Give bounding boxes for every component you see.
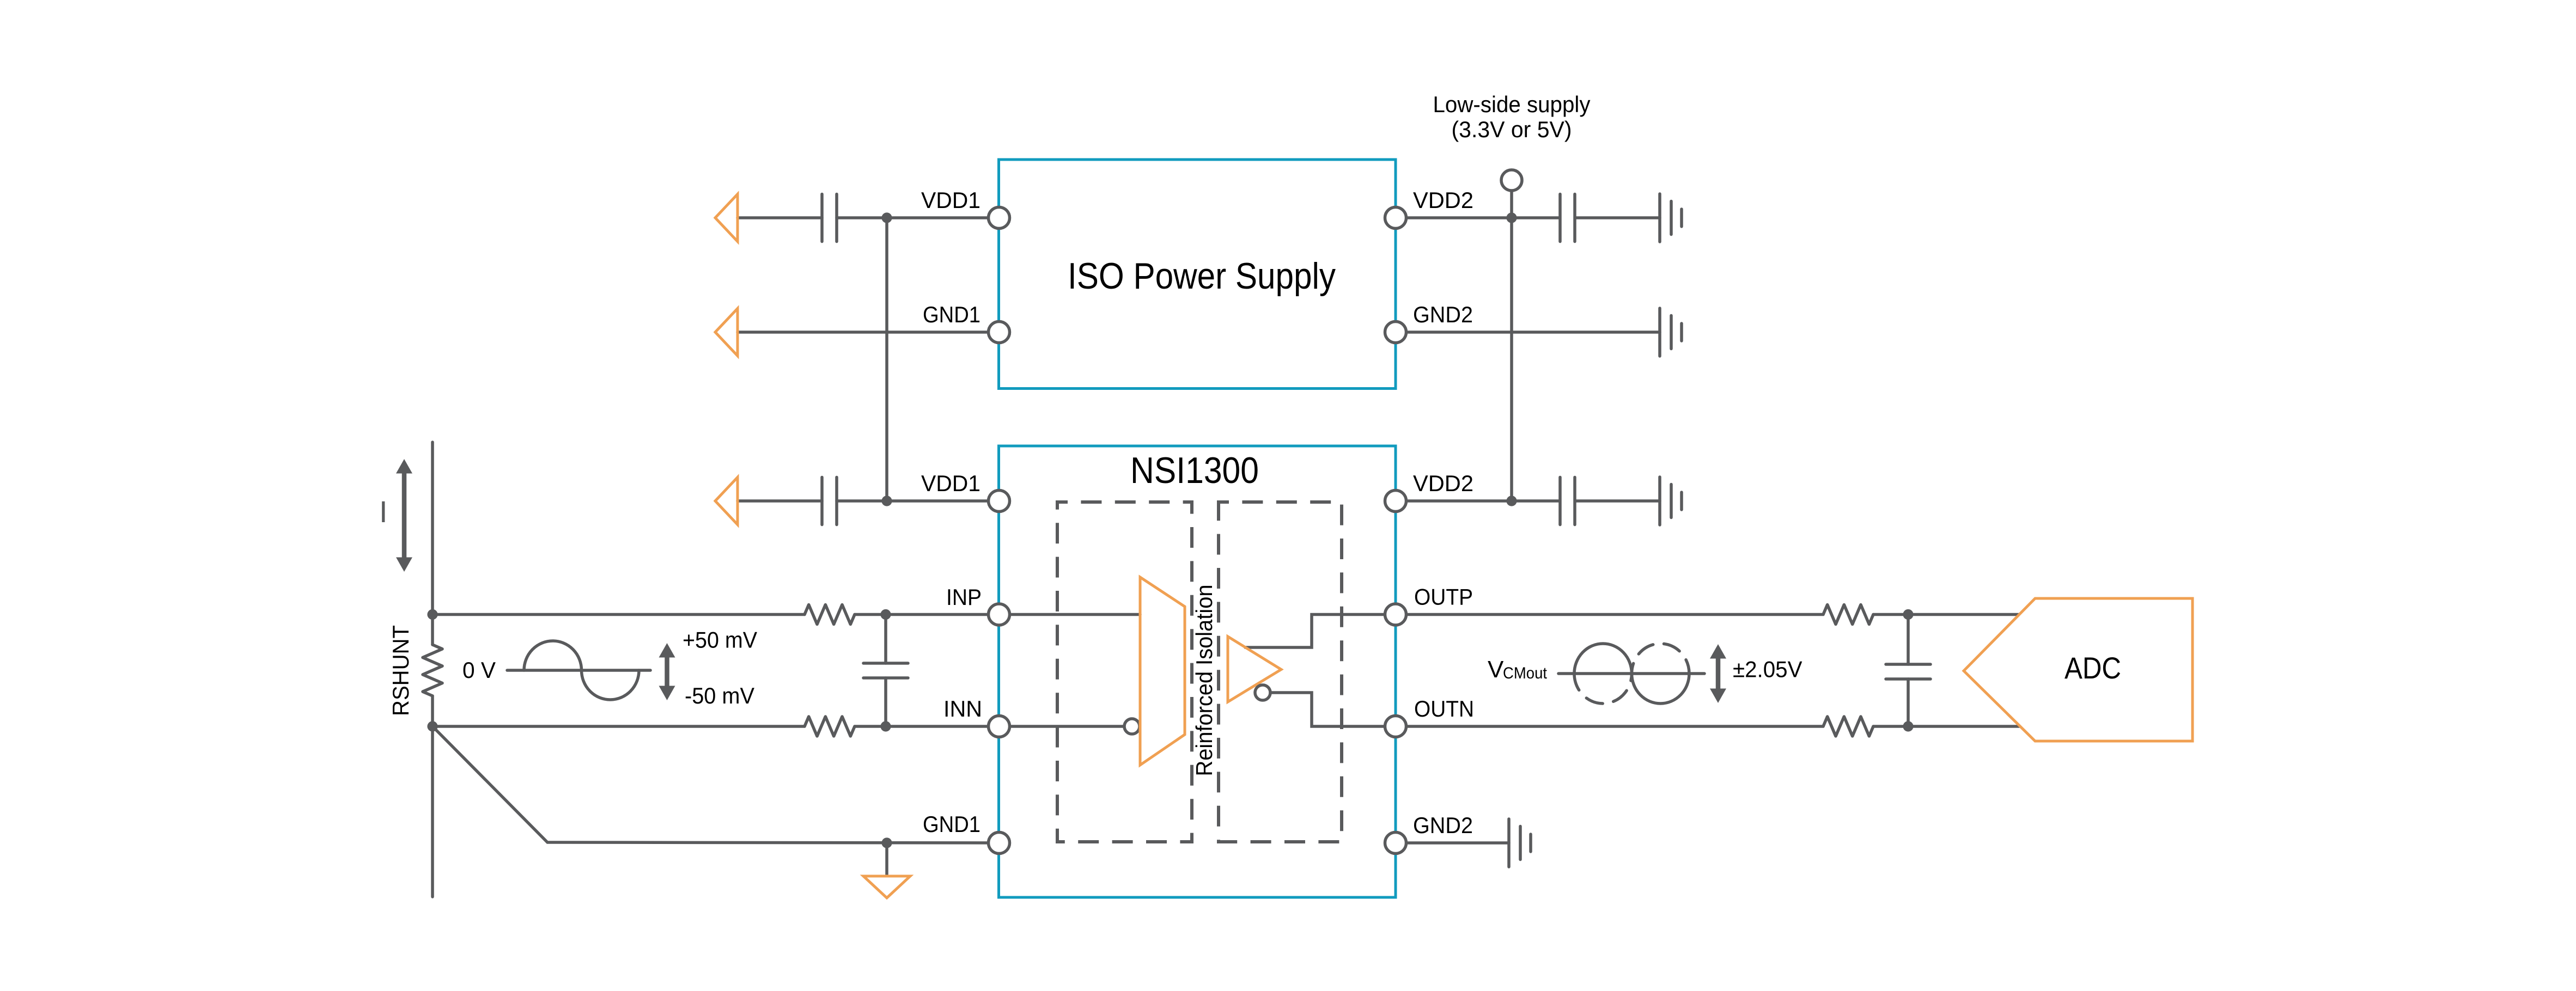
svg-text:GND2: GND2 [1413, 302, 1473, 327]
isolation barrier dashed box (right) [1219, 502, 1342, 842]
ISO Power Supply box U1 [999, 160, 1396, 389]
common-mode axis wire [1558, 672, 1704, 675]
pin VDD1 (U2) [989, 491, 1010, 512]
wire: VDD1 top row [738, 216, 999, 219]
wire: GND2 top row [1396, 331, 1660, 334]
wire: VDD2 top row [1396, 216, 1660, 219]
pin OUTP (U2) [1385, 604, 1406, 625]
svg-text:INP: INP [946, 584, 982, 610]
svg-text:-50 mV: -50 mV [685, 683, 754, 708]
pin OUTN (U2) [1385, 716, 1406, 737]
ground (GND2 bottom) [1509, 819, 1531, 867]
svg-text:±2.05V: ±2.05V [1733, 657, 1802, 682]
svg-text:OUTP: OUTP [1414, 584, 1473, 610]
svg-text:ADC: ADC [2065, 651, 2121, 685]
supply terminal circle [1510, 191, 1513, 218]
svg-text:GND2: GND2 [1413, 812, 1473, 838]
svg-text:OUTN: OUTN [1414, 696, 1474, 721]
wire: INP inside [999, 613, 1140, 616]
solid differential sine [1574, 644, 1689, 704]
junction: INN at shunt [427, 721, 437, 731]
capacitor C5 (VDD2 bottom) [1560, 478, 1575, 525]
junction: OUTP at C6 [1903, 609, 1913, 620]
isolation barrier dashed box (left) [1057, 502, 1192, 842]
source: sine wave [524, 641, 639, 700]
wire: GND1 return (diagonal from shunt) [433, 726, 999, 843]
pin GND2 (U1) [1385, 322, 1406, 343]
current direction arrow [396, 459, 412, 572]
capacitor C3 (input filter) [884, 615, 887, 727]
ground (VDD2 bottom) [1660, 477, 1682, 525]
junction: VDD1 top [881, 212, 892, 223]
svg-text:V: V [1488, 656, 1504, 683]
svg-text:NSI1300: NSI1300 [1130, 450, 1259, 491]
wire: VDD1 bottom row [738, 499, 999, 503]
junction: VDD2 bottom [1506, 495, 1517, 506]
dashed differential sine [1574, 644, 1689, 704]
svg-text:GND1: GND1 [923, 302, 981, 327]
capacitor C6 (output filter) [1907, 615, 1910, 727]
svg-text:0 V: 0 V [462, 657, 496, 683]
svg-text:GND1: GND1 [923, 811, 981, 837]
pin VDD2 (U2) [1385, 491, 1406, 512]
node: sensed line vertical bus [431, 442, 434, 897]
junction: OUTN at C6 [1903, 721, 1913, 731]
off-page arrow (VDD1 bottom) [715, 478, 738, 525]
wire: GND1 top row [738, 331, 999, 334]
pin GND2 (U2) [1385, 833, 1406, 854]
pin INP (U2) [989, 604, 1010, 625]
wire: OUTP inside [1245, 615, 1396, 648]
svg-text:VDD1: VDD1 [921, 187, 981, 213]
wire: OUTN row [1396, 725, 2023, 728]
resistor R3 (OUTP) [1823, 605, 1873, 625]
junction: VDD2 top [1506, 212, 1517, 223]
pin INN (U2) [989, 716, 1010, 737]
junction: INN at C3 [880, 721, 891, 731]
junction: INP at shunt [427, 609, 437, 620]
wire: OUTN inside [1270, 693, 1396, 726]
svg-text:I: I [379, 494, 388, 529]
wire: OUTP row [1396, 613, 2022, 616]
pin GND1 (U1) [989, 322, 1010, 343]
svg-text:VDD2: VDD2 [1413, 187, 1473, 213]
wire: VDD2 net vertical [1510, 218, 1513, 501]
pin VDD2 (U1) [1385, 207, 1406, 229]
output swing arrow [1710, 644, 1726, 703]
svg-text:Low-side supply: Low-side supply [1433, 91, 1591, 117]
source: baseline wire [507, 669, 650, 672]
wire: INN inside [999, 725, 1124, 728]
field-side ground triangle [863, 876, 910, 898]
capacitor C4 (VDD1 bottom) [822, 478, 837, 525]
off-page arrow (VDD1 top) [715, 194, 738, 242]
wire: VDD2 bottom row [1396, 499, 1660, 503]
junction: INP at C3 [880, 609, 891, 620]
pin GND1 (U2) [989, 833, 1010, 854]
resistor R2 (INN filter) [805, 717, 855, 736]
capacitor C2 (VDD2 top) [1560, 194, 1575, 242]
wire: INP row (shunt to pin) [433, 613, 999, 616]
pin VDD1 (U1) [989, 207, 1010, 229]
wire: INN row (shunt to pin) [433, 725, 999, 728]
wire: VDD1 net vertical [885, 218, 888, 501]
wire: GND2 bottom row [1396, 841, 1509, 845]
off-page arrow (GND1 top) [715, 309, 738, 356]
svg-text:+50 mV: +50 mV [683, 627, 757, 653]
svg-text:VDD2: VDD2 [1413, 470, 1473, 496]
wire: stub to field ground [885, 843, 888, 874]
source: swing arrow [659, 643, 675, 700]
inverting output bubble [1255, 685, 1270, 700]
inverting input bubble [1124, 719, 1140, 734]
svg-text:CMout: CMout [1503, 664, 1548, 682]
NSI1300 box U2 [999, 446, 1396, 897]
svg-text:ISO Power Supply: ISO Power Supply [1068, 255, 1336, 297]
modulator trapezoid U2a [1140, 577, 1185, 765]
svg-text:(3.3V or 5V): (3.3V or 5V) [1452, 117, 1572, 142]
junction: VDD1 bottom [881, 495, 892, 506]
output buffer triangle U2b [1228, 637, 1281, 702]
svg-text:INN: INN [943, 696, 982, 721]
ground (GND2 top) [1660, 308, 1682, 356]
capacitor C1 (VDD1 top) [822, 194, 837, 242]
ADC block U3 [1964, 598, 2193, 741]
junction: GND1 at ground stub [881, 837, 892, 848]
svg-text:Reinforced Isolation: Reinforced Isolation [1191, 585, 1217, 776]
resistor R1 (INP filter) [805, 605, 855, 625]
resistor RSHUNT [423, 645, 442, 696]
svg-text:RSHUNT: RSHUNT [388, 625, 413, 716]
svg-text:VDD1: VDD1 [921, 470, 981, 496]
resistor R4 (OUTN) [1823, 717, 1873, 736]
ground (VDD2 top) [1660, 194, 1682, 242]
